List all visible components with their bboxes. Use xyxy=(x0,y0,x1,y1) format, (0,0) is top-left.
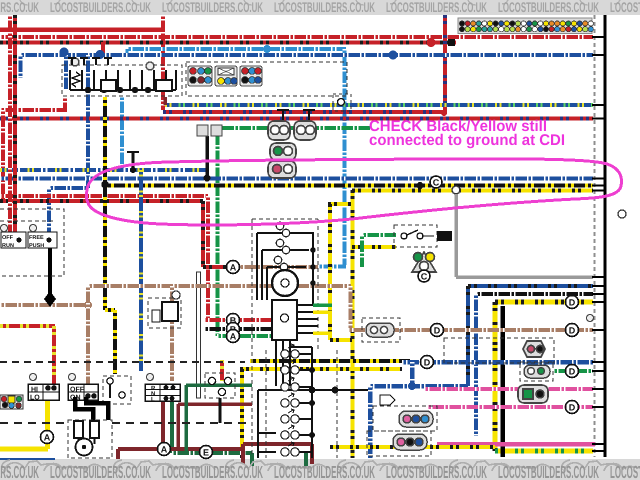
wire B/W blue horizontal y55 xyxy=(20,53,593,57)
svg-text:FREE: FREE xyxy=(29,235,44,241)
magenta annotation ellipse xyxy=(86,159,621,225)
connector dashed box y330 xyxy=(362,318,400,342)
wire R/B horizontal y42 xyxy=(0,41,456,45)
wire stub y302 xyxy=(592,301,606,303)
svg-text:LOCOSTBUILDERS.CO.UK: LOCOSTBUILDERS.CO.UK xyxy=(498,462,599,480)
wire P/W pink horizontal y407 xyxy=(427,405,593,409)
svg-text:LO: LO xyxy=(30,395,40,402)
CDI leads to fan xyxy=(276,340,290,349)
coil circle xyxy=(76,439,93,456)
wire Br/W horizontal y330 right xyxy=(448,328,593,332)
node D y330r xyxy=(566,324,579,337)
wire green corner y235 xyxy=(362,233,397,237)
wire light blue horizontal y267 into CDI xyxy=(318,265,346,269)
relay junction dots xyxy=(85,80,165,93)
svg-text:LOCOSTBUILDERS.CO.UK: LOCOSTBUILDERS.CO.UK xyxy=(386,462,487,480)
svg-text:A: A xyxy=(44,433,51,443)
wire dark-red horizontal y441 xyxy=(118,447,243,451)
wire stub y286 xyxy=(592,285,606,287)
wire dark-red box y444 xyxy=(243,444,312,464)
bottom watermark banner xyxy=(0,459,640,480)
wire red horizontal y326 xyxy=(0,324,55,328)
wire black pin x133 xyxy=(132,152,135,170)
svg-text:LOCOSTBUILDERS.CO.UK: LOCOSTBUILDERS.CO.UK xyxy=(50,0,151,15)
tail green horizontal y385 xyxy=(186,383,252,387)
wire green horizontal y336 to A xyxy=(217,334,274,338)
wire G/W horizontal y371 right xyxy=(553,369,593,373)
wire Dg/B blue horizontal y286 xyxy=(468,284,593,288)
wire red horizontal y320 to B xyxy=(204,318,274,322)
svg-text:D: D xyxy=(569,367,576,377)
svg-text:LOCOSTBUILDERS.CO.UK: LOCOSTBUILDERS.CO.UK xyxy=(50,462,151,480)
wire red vertical x222 bottom xyxy=(220,360,224,381)
wire yellow lead y333 xyxy=(313,331,332,335)
junction dot x105 y185 xyxy=(102,182,109,189)
pilot circle xyxy=(71,58,79,66)
bus junction dots xyxy=(309,367,339,438)
wire R/W horizontal y29 xyxy=(0,27,164,32)
triangle warning connector top center-right xyxy=(412,252,436,272)
wire yellow horizontal y302 right xyxy=(495,300,593,305)
wire light blue vertical x122 xyxy=(120,96,124,170)
wire yellow vertical x495 xyxy=(493,302,498,451)
relay block dashed box top-left xyxy=(62,65,182,96)
flasher relay dashed box xyxy=(205,373,235,398)
wire B/Y black horizontal y185 xyxy=(105,184,593,188)
wire green lead y306 xyxy=(313,303,332,307)
tail maroon vertical x178 xyxy=(176,404,180,449)
wire green vertical x217 xyxy=(216,128,220,336)
resistor zigzag xyxy=(72,72,80,87)
svg-text:PUSH: PUSH xyxy=(29,243,44,249)
wire pink horizontal y444 xyxy=(437,442,595,447)
wire red vertical x15 xyxy=(13,15,17,232)
wire yellow jog y340 xyxy=(330,338,352,342)
node A y267 xyxy=(227,261,240,274)
wire blue/yellow horizontal y105 xyxy=(165,103,593,107)
node D y330 xyxy=(431,324,444,337)
node B y329 xyxy=(227,323,240,336)
wire R/W horizontal y37 xyxy=(0,35,593,39)
wire yellow jog y204 xyxy=(328,202,352,206)
ground fan black bus xyxy=(258,347,368,458)
oval connector pink blue 2 xyxy=(393,434,427,450)
wire red horizontal y267 to A xyxy=(203,265,230,269)
wire stub y190.5 xyxy=(592,190,606,192)
small dashed box with circle x333 y94 xyxy=(333,94,351,111)
wire blue vertical x49 xyxy=(47,188,51,232)
frame: right dashed border xyxy=(594,15,596,457)
svg-text:RUN: RUN xyxy=(2,243,14,249)
dashed boxes around pink connectors xyxy=(373,406,437,431)
circled letters xyxy=(41,176,579,459)
svg-text:LOCOSTBUILDERS.CO.UK: LOCOSTBUILDERS.CO.UK xyxy=(274,0,375,15)
CDI dashed box xyxy=(252,219,337,458)
gear position switch box R N L xyxy=(145,384,180,403)
svg-text:HI: HI xyxy=(31,387,38,394)
wire stub y185.5 xyxy=(592,185,606,187)
node E tail xyxy=(200,446,213,459)
wire black horizontal y329 to B xyxy=(204,327,274,331)
svg-text:A: A xyxy=(230,263,237,273)
banner cars bottom xyxy=(2,460,640,471)
small colored connector block bottom-left xyxy=(0,395,23,409)
wire P/W pink horizontal y389 xyxy=(424,387,593,391)
resistor box left-center xyxy=(148,298,181,328)
wire brown vertical x172 xyxy=(170,286,174,381)
handlebar switch boxes left y212 xyxy=(1,225,58,250)
wire green vertical x172 bottom xyxy=(170,400,174,453)
wire stub y277 xyxy=(592,276,606,278)
wire stub y55 xyxy=(592,54,606,56)
svg-text:L: L xyxy=(151,396,155,403)
wire blue vertical x412 xyxy=(410,362,415,386)
wire stub y389 xyxy=(592,388,606,390)
wire Y/B horizontal y369 center xyxy=(240,367,402,371)
wire R/B horizontal y119 xyxy=(0,117,593,121)
wire red vertical x10 xyxy=(8,15,12,232)
right bus stubs xyxy=(592,37,606,451)
HI LO switch box xyxy=(28,384,59,402)
svg-text:LOCOSTBUILDERS.CO.UK: LOCOSTBUILDERS.CO.UK xyxy=(0,462,39,480)
wire red vertical x54 xyxy=(52,326,56,384)
svg-text:E: E xyxy=(203,448,209,458)
EXUP connector xyxy=(518,385,548,403)
CDI leads below xyxy=(276,340,290,386)
wire green box verts xyxy=(252,453,306,466)
node A tail xyxy=(158,443,171,456)
wire blue vertical x476 xyxy=(474,294,478,436)
end cap y42 xyxy=(448,39,455,46)
wire L/Y blue horizontal y170 xyxy=(0,168,207,172)
wire B/W horizontal y330 xyxy=(348,328,462,332)
frame: right solid black bus xyxy=(604,15,607,457)
junction dot brown x88 y305 xyxy=(84,301,92,309)
svg-text:connected to ground at CDI: connected to ground at CDI xyxy=(369,132,565,149)
wire blue horizontal y188 xyxy=(49,186,88,190)
svg-text:LOCOSTBUILDERS.CO.UK: LOCOSTBUILDERS.CO.UK xyxy=(0,0,39,15)
dashed enclosure around connector strip xyxy=(186,62,347,96)
T pins above round connectors xyxy=(277,110,315,120)
node A y336 xyxy=(227,330,240,343)
wire white vertical x198 xyxy=(197,272,201,398)
wire B/W blue horizontal y178 xyxy=(0,177,593,181)
node D y362 xyxy=(421,356,434,369)
wire yellow lead y312 xyxy=(313,310,332,314)
tail maroon horizontal y404 xyxy=(178,402,252,406)
wire stub y118.5 xyxy=(592,118,606,120)
wire yellow vertical x242 xyxy=(240,369,244,458)
wire stub y37 xyxy=(592,36,606,38)
junction dot blue x100 y54 xyxy=(96,50,105,59)
wire dark-red vertical x120 xyxy=(116,449,120,459)
relay internal bus xyxy=(70,70,176,90)
OFF ON switch box xyxy=(68,384,98,402)
junction dot x133 y170 xyxy=(130,167,136,173)
arrowhead diamond xyxy=(103,426,113,440)
spark plugs xyxy=(74,421,99,444)
wire yellow horizontal y447 xyxy=(330,445,495,449)
wire black vertical x53 kill xyxy=(48,248,52,294)
svg-text:D: D xyxy=(434,326,441,336)
wire yellow horizontal y247 xyxy=(352,245,396,249)
node A headlamp xyxy=(41,431,54,444)
svg-text:LOCOSTBUILDERS.CO.UK: LOCOSTBUILDERS.CO.UK xyxy=(162,462,263,480)
wire black vertical x207 xyxy=(205,136,209,178)
node B y320 xyxy=(227,314,240,327)
node C y184 xyxy=(430,176,442,188)
wire stub y105 xyxy=(592,104,606,106)
connector strip top right xyxy=(458,18,593,34)
wire blue horizontal y386 xyxy=(369,384,468,389)
wire stub y371 xyxy=(592,370,606,372)
horn connector xyxy=(523,341,545,357)
wire yellow vertical x47 headlight xyxy=(45,400,50,449)
svg-text:LOCOSTBUILDERS.CO.UK: LOCOSTBUILDERS.CO.UK xyxy=(386,0,487,15)
wire blue horizontal y362 right xyxy=(402,360,593,365)
component box CD xyxy=(101,80,116,91)
node white circle x456 y191 xyxy=(452,186,460,194)
svg-text:OFF: OFF xyxy=(2,235,14,241)
wire maroon stub x165 xyxy=(163,97,167,105)
round connector green stacked xyxy=(268,143,296,178)
wire stub y330 xyxy=(592,329,606,331)
svg-text:D: D xyxy=(424,358,431,368)
sidestand switch dashed box xyxy=(394,225,437,247)
junction dot x207 y178 xyxy=(204,175,211,182)
svg-text:LOCOSTBUILDERS.CO.UK: LOCOSTBUILDERS.CO.UK xyxy=(498,0,599,15)
wire B/Y vertical x115 xyxy=(113,310,117,374)
wire Y/B yellow horizontal y190 xyxy=(352,189,593,193)
CDI unit box xyxy=(272,300,297,340)
wire B/Y jog y310 xyxy=(105,308,115,312)
wire red stub x103 xyxy=(101,42,105,53)
wire stub y451 xyxy=(592,450,606,452)
long dashed line y423 xyxy=(0,422,250,424)
top watermark banner xyxy=(0,0,640,15)
tail green vertical x186 xyxy=(184,385,188,453)
wire dark-red vertical x163 bottom xyxy=(161,400,165,449)
svg-text:A: A xyxy=(230,332,237,342)
CDI pin circles xyxy=(274,222,294,292)
wire stub y294 xyxy=(592,293,606,295)
dashed outline around switch boxes xyxy=(0,209,64,276)
circled number above HI LO xyxy=(30,374,37,381)
wire blue vertical x370 xyxy=(368,386,373,458)
svg-text:LOCOSTBUILDERS.CO.UK: LOCOSTBUILDERS.CO.UK xyxy=(162,0,263,15)
long dashed line y345 xyxy=(0,361,245,363)
wire Br/W brown horizontal y286 xyxy=(88,284,351,288)
wire R/B horizontal y112 xyxy=(163,110,444,114)
wire R/W horizontal y196 xyxy=(0,194,208,198)
connector strip A (3 blocks) xyxy=(188,66,262,86)
CDI nested wiring xyxy=(257,233,313,305)
wire brown vertical x350 xyxy=(349,286,353,330)
wire L/Y blue vertical x141 xyxy=(139,170,143,371)
ignition switch black path xyxy=(75,397,108,430)
svg-text:D: D xyxy=(569,326,576,336)
node D y407 xyxy=(566,401,579,414)
wire R/B horizontal y201 xyxy=(0,199,203,203)
wire red vertical x203 xyxy=(201,201,205,267)
svg-text:C: C xyxy=(433,178,440,188)
wire G/W green horizontal y128 xyxy=(217,126,370,130)
wire gray vertical x456 xyxy=(454,195,458,277)
small connectors above x207 xyxy=(197,125,208,136)
Y split connector xyxy=(380,395,395,405)
connector pins above relay box xyxy=(68,58,112,65)
wire brown vertical x88 xyxy=(86,286,90,384)
svg-text:LOCOSTBUILDERS.CO.UK: LOCOSTBUILDERS.CO.UK xyxy=(274,462,375,480)
wire red vertical x3 xyxy=(1,110,5,201)
ground bullet pairs xyxy=(281,344,299,456)
wire black vertical x205 flasher drop xyxy=(219,398,222,423)
wire yellow horizontal y451 bottom right xyxy=(495,449,593,454)
wire stub y178.5 xyxy=(592,178,606,180)
wire stub y362 xyxy=(592,361,606,363)
svg-text:A: A xyxy=(161,445,168,455)
wire black vertical x502 xyxy=(500,306,505,457)
wire brown horizontal y267 from A xyxy=(239,265,318,269)
wire gray horizontal y277 xyxy=(456,275,593,279)
arrowhead kill switch xyxy=(44,291,56,307)
wire yellow vertical x330 xyxy=(328,204,332,340)
banner text bottom xyxy=(0,462,640,480)
CDI junction dots right xyxy=(310,247,316,286)
wire yellow vertical x352 xyxy=(351,190,355,458)
wire blue vertical x88 xyxy=(86,55,90,188)
wire blue vertical x20 xyxy=(19,55,23,78)
tiny circle right y214 xyxy=(618,210,626,218)
oval connector pink blue 1 xyxy=(399,411,433,427)
connector dashed box right y371 xyxy=(520,362,553,381)
wire green horizontal y452 xyxy=(172,451,252,455)
wire red vertical x445 xyxy=(443,15,447,113)
svg-text:D: D xyxy=(569,298,576,308)
wire blue thin y459 left xyxy=(0,458,55,460)
wire B/W horizontal y294 xyxy=(476,292,593,296)
CDI leads right xyxy=(297,305,318,333)
wire red vertical x66 riser xyxy=(63,97,67,110)
CDI big circle xyxy=(272,270,298,296)
wire L/W horizontal y49 xyxy=(127,47,346,51)
junction dot blue x64 y51 xyxy=(60,48,69,57)
svg-text:C: C xyxy=(421,272,428,282)
wire light blue stub x127 xyxy=(126,49,129,55)
wire B/Y vertical x105 xyxy=(103,97,107,310)
svg-text:LOCOSTBUILDERS.CO.UK: LOCOSTBUILDERS.CO.UK xyxy=(610,0,640,15)
svg-text:D: D xyxy=(569,403,576,413)
node D y371 xyxy=(566,365,579,378)
svg-text:LOCOSTBUILDERS.CO.UK: LOCOSTBUILDERS.CO.UK xyxy=(610,462,640,480)
ignition coil dashed box xyxy=(68,420,112,458)
round connector pair top-center xyxy=(268,121,316,140)
wire red vertical x208 xyxy=(206,196,210,320)
wire B/Y horizontal y361 center xyxy=(250,359,410,363)
wire stub y407 xyxy=(592,406,606,408)
wire stub y444 xyxy=(592,443,606,445)
clutch switch dashed box xyxy=(103,376,131,404)
wire brown horizontal y305 xyxy=(0,303,88,307)
svg-text:OFF: OFF xyxy=(70,387,85,394)
wire red horizontal y110 left xyxy=(0,108,67,112)
wire red vertical x163 xyxy=(161,15,165,110)
wire blue vertical x66 xyxy=(64,55,68,90)
wire light blue vertical x344 xyxy=(343,49,347,265)
wire blue vertical x468 xyxy=(466,286,470,386)
node D y302 xyxy=(566,296,579,309)
node C triangle xyxy=(418,270,430,282)
wire yellow horizontal y449 left xyxy=(0,447,48,452)
